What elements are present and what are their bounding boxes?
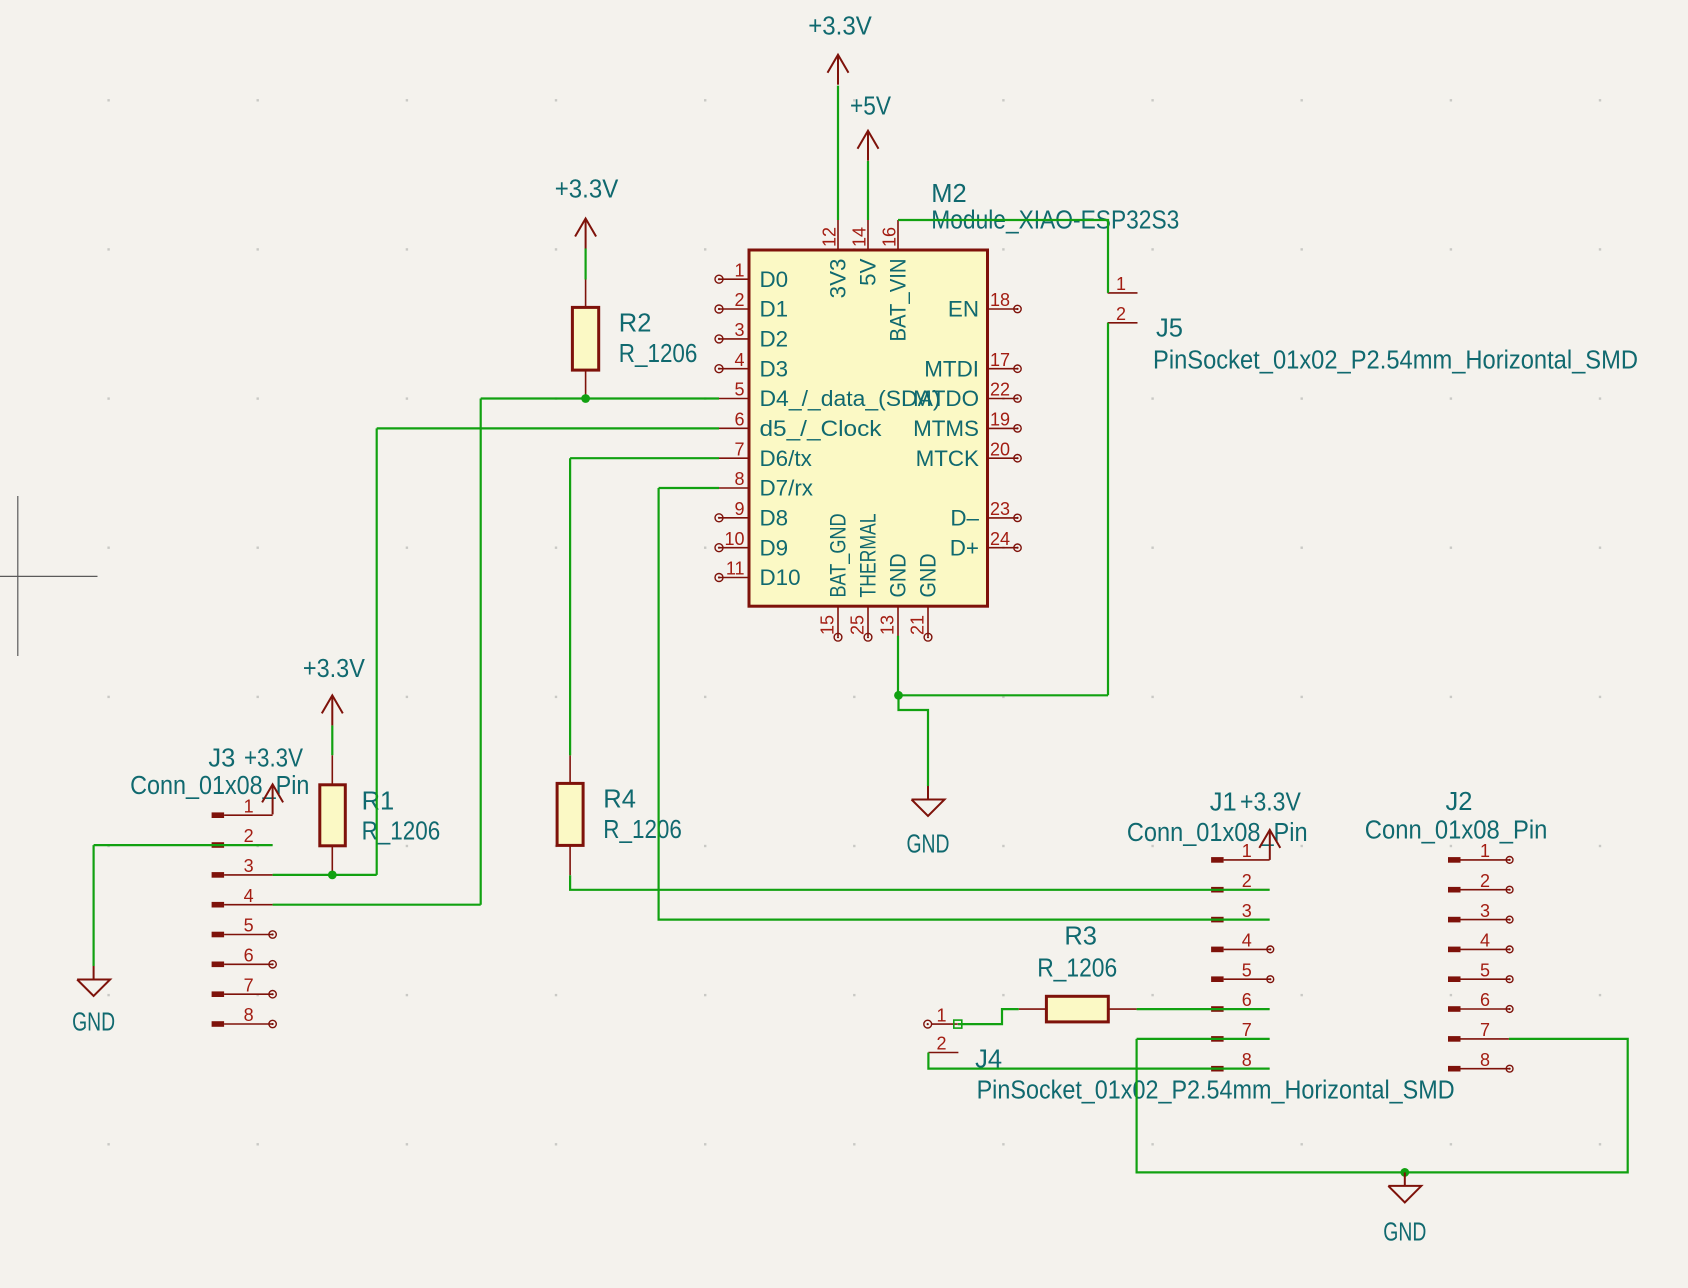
svg-text:4: 4	[734, 350, 744, 370]
svg-text:2: 2	[1116, 304, 1126, 324]
svg-text:18: 18	[990, 290, 1010, 310]
svg-text:BAT_VIN: BAT_VIN	[886, 259, 911, 342]
svg-text:R_1206: R_1206	[362, 818, 441, 846]
svg-text:D–: D–	[950, 506, 979, 531]
svg-text:11: 11	[726, 559, 745, 579]
svg-text:5: 5	[244, 916, 254, 936]
svg-text:4: 4	[244, 886, 254, 906]
svg-text:BAT_GND: BAT_GND	[826, 514, 851, 598]
svg-text:GND: GND	[916, 554, 941, 598]
svg-text:3: 3	[734, 320, 744, 340]
svg-text:7: 7	[734, 439, 744, 459]
svg-text:M2: M2	[931, 180, 966, 208]
svg-text:1: 1	[244, 796, 254, 816]
svg-text:21: 21	[908, 615, 928, 635]
svg-text:+5V: +5V	[850, 93, 891, 121]
svg-text:1: 1	[936, 1005, 946, 1025]
svg-text:5: 5	[734, 380, 744, 400]
svg-text:7: 7	[244, 975, 254, 995]
svg-text:R1: R1	[362, 787, 395, 815]
svg-text:+3.3V: +3.3V	[808, 13, 872, 41]
svg-text:17: 17	[990, 350, 1010, 370]
svg-text:MTMS: MTMS	[913, 416, 979, 441]
svg-text:8: 8	[1480, 1050, 1490, 1070]
svg-text:1: 1	[1480, 841, 1490, 861]
svg-text:6: 6	[1242, 990, 1252, 1010]
svg-text:3: 3	[1242, 901, 1252, 921]
svg-text:4: 4	[1242, 931, 1252, 951]
svg-text:5V: 5V	[856, 258, 881, 285]
svg-text:2: 2	[734, 290, 744, 310]
svg-text:2: 2	[244, 826, 254, 846]
svg-text:PinSocket_01x02_P2.54mm_Horizo: PinSocket_01x02_P2.54mm_Horizontal_SMD	[977, 1077, 1455, 1105]
svg-text:J1: J1	[1210, 789, 1237, 817]
svg-text:5: 5	[1242, 960, 1252, 980]
svg-text:16: 16	[880, 227, 900, 247]
svg-text:10: 10	[724, 529, 744, 549]
svg-text:GND: GND	[907, 830, 950, 858]
svg-text:MTDO: MTDO	[913, 386, 979, 411]
svg-text:3V3: 3V3	[826, 259, 851, 299]
svg-text:D8: D8	[760, 506, 789, 531]
svg-text:6: 6	[244, 946, 254, 966]
svg-text:D10: D10	[760, 565, 801, 590]
svg-text:20: 20	[990, 439, 1010, 459]
svg-text:15: 15	[818, 615, 838, 635]
svg-text:8: 8	[1242, 1050, 1252, 1070]
svg-text:24: 24	[990, 529, 1010, 549]
svg-text:5: 5	[1480, 960, 1490, 980]
svg-text:J3: J3	[208, 745, 235, 773]
svg-text:6: 6	[1480, 990, 1490, 1010]
svg-text:D9: D9	[760, 535, 789, 560]
svg-text:3: 3	[244, 856, 254, 876]
svg-text:R4: R4	[603, 786, 636, 814]
svg-text:MTDI: MTDI	[924, 356, 979, 381]
svg-text:D6/tx: D6/tx	[760, 446, 812, 471]
svg-text:2: 2	[936, 1034, 946, 1054]
svg-text:4: 4	[1480, 931, 1490, 951]
svg-text:D1: D1	[760, 297, 789, 322]
svg-text:+3.3V: +3.3V	[1240, 789, 1301, 817]
svg-text:1: 1	[734, 260, 744, 280]
svg-text:R_1206: R_1206	[619, 340, 698, 368]
svg-text:J5: J5	[1156, 314, 1183, 342]
svg-text:23: 23	[990, 499, 1010, 519]
svg-text:d5_/_Clock: d5_/_Clock	[760, 416, 883, 441]
svg-text:+3.3V: +3.3V	[303, 655, 365, 683]
svg-text:+3.3V: +3.3V	[244, 745, 303, 773]
svg-text:R3: R3	[1064, 923, 1097, 951]
svg-text:R_1206: R_1206	[1037, 955, 1117, 983]
svg-text:D2: D2	[760, 327, 789, 352]
svg-text:Conn_01x08_Pin: Conn_01x08_Pin	[1127, 819, 1308, 847]
svg-text:3: 3	[1480, 901, 1490, 921]
svg-text:7: 7	[1480, 1020, 1490, 1040]
svg-text:12: 12	[820, 227, 840, 247]
svg-text:R_1206: R_1206	[603, 816, 682, 844]
svg-text:1: 1	[1242, 841, 1252, 861]
svg-text:GND: GND	[1383, 1218, 1426, 1246]
svg-text:D7/rx: D7/rx	[760, 476, 814, 501]
svg-text:D3: D3	[760, 356, 789, 381]
svg-text:Conn_01x08_Pin: Conn_01x08_Pin	[1365, 816, 1548, 844]
svg-text:14: 14	[850, 227, 870, 247]
svg-text:13: 13	[878, 615, 898, 635]
svg-text:9: 9	[734, 499, 744, 519]
svg-text:J2: J2	[1446, 788, 1473, 816]
svg-text:19: 19	[990, 410, 1010, 430]
svg-text:GND: GND	[72, 1009, 115, 1037]
svg-text:8: 8	[244, 1005, 254, 1025]
svg-text:PinSocket_01x02_P2.54mm_Horizo: PinSocket_01x02_P2.54mm_Horizontal_SMD	[1153, 347, 1638, 375]
svg-text:1: 1	[1116, 274, 1126, 294]
svg-text:GND: GND	[886, 554, 911, 598]
svg-text:THERMAL: THERMAL	[856, 514, 881, 598]
svg-text:22: 22	[990, 380, 1010, 400]
svg-text:+3.3V: +3.3V	[555, 175, 619, 203]
svg-text:7: 7	[1242, 1020, 1252, 1040]
svg-text:EN: EN	[948, 297, 979, 322]
svg-text:D0: D0	[760, 267, 789, 292]
svg-text:Conn_01x08_Pin: Conn_01x08_Pin	[130, 772, 309, 800]
svg-text:6: 6	[734, 410, 744, 430]
svg-text:R2: R2	[619, 310, 652, 338]
svg-text:2: 2	[1242, 871, 1252, 891]
svg-text:D+: D+	[950, 535, 979, 560]
svg-text:MTCK: MTCK	[916, 446, 979, 471]
svg-text:8: 8	[734, 469, 744, 489]
svg-text:2: 2	[1480, 871, 1490, 891]
svg-text:25: 25	[848, 615, 868, 635]
